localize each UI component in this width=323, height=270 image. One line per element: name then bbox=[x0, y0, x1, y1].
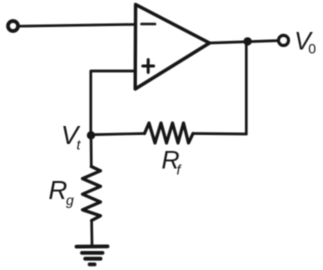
wire node Vt to resistor Rf bbox=[95, 134, 145, 135]
resistor Rf bbox=[145, 123, 194, 143]
input terminal bbox=[8, 21, 18, 31]
wire output branch vertical bbox=[245, 41, 248, 134]
wire op-amp output bbox=[210, 41, 279, 43]
svg-text:0: 0 bbox=[308, 41, 316, 57]
wire Rg to ground bbox=[90, 221, 93, 246]
ground bbox=[77, 246, 108, 264]
node Vt junction dot bbox=[87, 131, 95, 139]
wire non-inverting input bbox=[91, 71, 134, 135]
junction dot output node bbox=[243, 37, 251, 45]
op-amp U1 bbox=[135, 5, 209, 90]
svg-text:f: f bbox=[177, 162, 183, 178]
svg-text:g: g bbox=[66, 192, 74, 208]
wire node Vt to resistor Rg bbox=[90, 135, 93, 167]
non-inverting input plus sign bbox=[143, 60, 154, 73]
svg-text:R: R bbox=[49, 175, 68, 205]
output terminal bbox=[279, 36, 289, 46]
wire Rf to output branch corner bbox=[193, 132, 246, 135]
svg-text:t: t bbox=[77, 137, 82, 153]
inverting input minus sign bbox=[142, 23, 156, 26]
wire input to inverting input bbox=[19, 24, 134, 26]
resistor Rg bbox=[83, 167, 101, 221]
